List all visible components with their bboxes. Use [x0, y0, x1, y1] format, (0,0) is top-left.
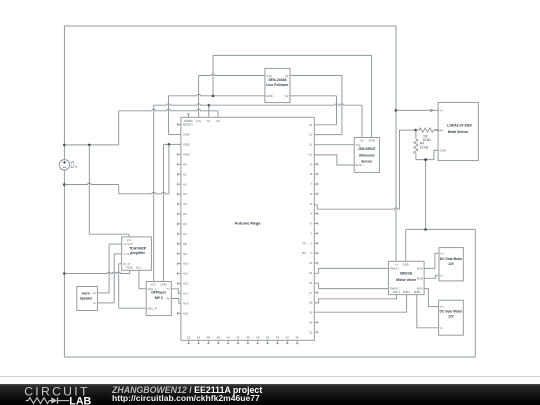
svg-text:TDA7492P: TDA7492P: [129, 246, 147, 250]
svg-text:13: 13: [309, 123, 313, 127]
wire amp Vcc branch horizontal: [89, 233, 129, 235]
svg-text:42: 42: [236, 336, 240, 340]
wire metal sensor GND link: [416, 150, 438, 159]
wire metal sensor GND down: [425, 160, 427, 230]
CircuitLab logo: [24, 384, 91, 405]
wire speaker- a: [97, 302, 114, 304]
wire IN_L / DAC_L vertical: [138, 270, 140, 289]
svg-text:Echo: Echo: [356, 163, 363, 167]
wire speaker- vertical: [113, 254, 115, 303]
resistor R4 10k: [414, 130, 429, 160]
wire 12V top rail: [64, 25, 396, 27]
wire 5V line: [154, 104, 362, 105]
svg-text:Ultrasonic: Ultrasonic: [359, 153, 375, 157]
DFPlayer MP3 module: [146, 282, 171, 316]
svg-text:DFPlayer: DFPlayer: [151, 291, 166, 295]
svg-text:S2: S2: [285, 94, 289, 98]
svg-text:48: 48: [207, 336, 211, 340]
svg-text:3.3v: 3.3v: [196, 119, 202, 123]
wire V1- down: [63, 170, 65, 357]
svg-text:38: 38: [256, 336, 260, 340]
wire DAC_L to DFPlayer: [139, 288, 146, 290]
wire into amp GND pin: [129, 270, 131, 273]
node 5V junction: [208, 104, 211, 107]
svg-text:A1: A1: [183, 172, 187, 176]
svg-text:A5: A5: [183, 212, 187, 216]
svg-text:A9: A9: [183, 252, 187, 256]
svg-text:12: 12: [309, 133, 313, 137]
wire M1A to motor1+: [424, 253, 439, 268]
wire S2 down: [336, 96, 338, 125]
svg-text:PWM 1: PWM 1: [390, 267, 400, 271]
node amp 12V branch: [88, 144, 91, 147]
svg-text:~9: ~9: [309, 162, 313, 166]
svg-text:3.3V: 3.3V: [266, 74, 272, 78]
svg-text:DC Gear Motor: DC Gear Motor: [440, 309, 463, 313]
wire: [118, 111, 120, 145]
wire DAC_R vertical: [118, 264, 120, 308]
wire pin13: [314, 124, 336, 126]
svg-text:LJ30A3-15-Z/BX: LJ30A3-15-Z/BX: [447, 124, 473, 128]
svg-text:GND: GND: [368, 139, 374, 143]
wire V1+ up: [63, 26, 65, 160]
wire 5v up: [208, 105, 210, 117]
svg-text:S1: S1: [285, 74, 289, 78]
wire pin5 jog: [314, 205, 317, 209]
wire Echo to pin10: [314, 155, 354, 165]
svg-text:34: 34: [276, 336, 280, 340]
wire S2: [290, 95, 337, 97]
wire 3.3v to line follower: [199, 74, 265, 75]
svg-text:GND: GND: [183, 143, 191, 147]
wire pin19 to DIR2: [314, 295, 406, 313]
node GND tap 1: [63, 183, 66, 186]
wire GND1 line: [169, 134, 181, 136]
wire 12V to Vin run: [64, 144, 118, 146]
svg-text:~5: ~5: [309, 202, 313, 206]
wire: [118, 185, 120, 194]
svg-text:~8: ~8: [309, 172, 313, 176]
svg-text:IN_L: IN_L: [136, 266, 142, 270]
wire GND to JSN: [371, 55, 373, 137]
wire Trig to pin11: [314, 144, 354, 146]
svg-text:A2: A2: [183, 182, 187, 186]
svg-text:RESET: RESET: [183, 123, 193, 127]
wire speaker+ vertical: [108, 244, 110, 293]
svg-text:A0: A0: [183, 162, 187, 166]
svg-text:DAC_L: DAC_L: [148, 287, 157, 291]
svg-text:Motor driver: Motor driver: [396, 278, 416, 282]
svg-text:RX ← 0: RX ← 0: [302, 251, 313, 255]
wire S1 down: [341, 76, 343, 135]
motor M2 DC gear motor: [439, 300, 464, 335]
svg-text:MP 3: MP 3: [155, 296, 163, 300]
svg-text:30: 30: [295, 336, 299, 340]
svg-text:http://circuitlab.com/ckhfk2m4: http://circuitlab.com/ckhfk2m46ue77: [112, 393, 260, 403]
svg-text:A13: A13: [183, 292, 189, 296]
wire GND to amp: [64, 272, 129, 273]
svg-text:19: 19: [309, 311, 313, 315]
svg-text:GND: GND: [183, 152, 191, 156]
svg-text:-In: -In: [93, 301, 97, 305]
wire IN_R: [119, 263, 122, 265]
wire divider to Arduino pin 5: [400, 130, 416, 209]
svg-text:Amplifier: Amplifier: [130, 251, 145, 255]
ultrasonic sensor JSN-SR04T: [354, 138, 379, 173]
svg-text:DC Gear Motor: DC Gear Motor: [440, 257, 463, 261]
wire GND to DFPlayer: [163, 144, 165, 281]
svg-text:LAB: LAB: [69, 395, 91, 405]
svg-text:In-: In-: [440, 273, 443, 277]
svg-text:44: 44: [226, 336, 230, 340]
wire into Vin pin: [217, 111, 219, 118]
wire GND bottom rail: [64, 356, 475, 358]
wire GND loop top: [406, 228, 476, 230]
svg-text:GND: GND: [183, 133, 191, 137]
svg-text:VCC: VCC: [150, 283, 156, 287]
wire pin12: [314, 134, 342, 136]
svg-text:21: 21: [309, 330, 313, 334]
svg-text:15: 15: [309, 271, 313, 275]
svg-text:A11: A11: [183, 272, 188, 276]
wire GND right riser: [474, 229, 476, 357]
node GND rail tap: [212, 95, 215, 98]
svg-text:+L OUT: +L OUT: [123, 242, 133, 246]
svg-text:Sensor: Sensor: [361, 160, 373, 164]
svg-text:A8: A8: [183, 242, 187, 246]
svg-text:12V: 12V: [448, 314, 455, 318]
wire GND2 line: [164, 143, 181, 145]
separator line: [0, 376, 540, 378]
svg-text:DAC_R: DAC_R: [148, 306, 157, 310]
node GND tap 2: [63, 272, 66, 275]
svg-text:DIR 1: DIR 1: [393, 290, 401, 294]
svg-text:SEN-24048: SEN-24048: [268, 78, 286, 82]
svg-text:~6: ~6: [309, 192, 313, 196]
resistor R3 10k: [416, 128, 439, 142]
svg-text:TX → 1: TX → 1: [302, 241, 313, 245]
svg-text:32: 32: [286, 336, 290, 340]
svg-text:Speaker: Speaker: [80, 296, 94, 300]
svg-text:40: 40: [246, 336, 250, 340]
wire GND run: [119, 192, 169, 193]
svg-text:16: 16: [309, 281, 313, 285]
svg-text:12V: 12V: [448, 262, 455, 266]
svg-text:Arduino Mega: Arduino Mega: [235, 220, 262, 225]
svg-text:52: 52: [187, 336, 191, 340]
svg-text:MDD3A: MDD3A: [400, 272, 413, 276]
node 12V tap: [63, 144, 66, 147]
junction: [424, 228, 427, 231]
svg-text:5v: 5v: [360, 139, 364, 143]
node 12V junction at metal sensor: [395, 109, 398, 112]
svg-text:M1A: M1A: [417, 267, 423, 271]
svg-text:Trig: Trig: [356, 143, 361, 147]
svg-text:Line Follower: Line Follower: [266, 83, 289, 87]
svg-text:In+: In+: [440, 252, 444, 256]
svg-text:18: 18: [309, 301, 313, 305]
wire 3.3v up: [198, 76, 200, 118]
svg-text:GND: GND: [126, 266, 132, 270]
svg-text:46: 46: [217, 336, 221, 340]
svg-text:+In: +In: [92, 291, 96, 295]
wire GND stub down: [168, 144, 170, 193]
wire GND rail left vertical: [212, 55, 214, 95]
svg-text:~10: ~10: [307, 152, 312, 156]
svg-text:GND: GND: [266, 94, 272, 98]
svg-text:17: 17: [309, 291, 313, 295]
wire Rx to A14: [171, 299, 181, 304]
wire GND rail top: [213, 54, 372, 56]
wire S1: [290, 75, 342, 77]
wire GND1 up: [168, 96, 170, 135]
svg-text:~3: ~3: [309, 222, 313, 226]
svg-text:In-: In-: [440, 326, 443, 330]
wire pin16 to PWM2: [314, 283, 388, 288]
metal sensor LJ30A3: [435, 102, 479, 160]
motor M1 DC gear motor: [439, 248, 463, 281]
svg-text:A14: A14: [183, 301, 189, 305]
voltage source V1: [59, 160, 78, 170]
svg-text:GND: GND: [440, 148, 446, 152]
svg-text:Metal Sensor: Metal Sensor: [448, 130, 469, 134]
wire pin15 to PWM1: [314, 268, 388, 273]
svg-text:10 kΩ: 10 kΩ: [420, 145, 429, 149]
motor driver MDD3A: [388, 261, 424, 294]
wire 12V down right: [395, 26, 397, 261]
wire pin5 horizontal: [317, 208, 399, 209]
svg-text:A12: A12: [183, 282, 189, 286]
svg-text:A6: A6: [183, 222, 187, 226]
wire +L OUT: [109, 243, 122, 245]
svg-text:20: 20: [309, 320, 313, 324]
speaker SPK1 Horn Speaker: [77, 287, 98, 311]
svg-text:GND: GND: [160, 283, 166, 287]
svg-text:5v: 5v: [207, 119, 211, 123]
wire -L OUT: [114, 253, 122, 255]
svg-text:A7: A7: [183, 232, 187, 236]
wire into amp Vcc pin: [128, 234, 130, 237]
wire MDD3A GND up: [405, 229, 407, 261]
svg-text:A4: A4: [183, 202, 187, 206]
junction: [168, 143, 171, 146]
svg-text:36: 36: [266, 336, 270, 340]
wire GND to line follower: [169, 94, 265, 95]
wire amp Vcc branch vertical: [88, 145, 90, 234]
wire M2B to motor2-: [417, 295, 439, 328]
svg-text:DIR 2: DIR 2: [403, 290, 411, 294]
wire metal sensor V+: [396, 109, 434, 111]
wire M1B to motor1-: [424, 275, 439, 278]
svg-text:Vin: Vin: [216, 119, 221, 123]
wire 5V to DFPlayer: [153, 105, 155, 281]
node divider junction: [414, 129, 417, 132]
svg-text:A3: A3: [183, 192, 187, 196]
op-amp U1 Arduino Mega: [178, 114, 318, 344]
wire Vin line: [119, 109, 218, 110]
svg-text:Horn: Horn: [82, 292, 90, 296]
svg-text:A10: A10: [183, 262, 189, 266]
svg-text:GND: GND: [403, 262, 409, 266]
svg-text:M1B: M1B: [417, 276, 423, 280]
wire GND tap to Arduino: [64, 183, 118, 184]
svg-text:V+: V+: [440, 109, 444, 113]
line follower sensor SEN-24048: [265, 68, 290, 102]
svg-text:14: 14: [309, 261, 313, 265]
svg-text:11: 11: [309, 143, 312, 147]
svg-text:A15: A15: [183, 311, 189, 315]
svg-text:JSN-SR04T: JSN-SR04T: [358, 147, 376, 151]
svg-text:In+: In+: [440, 305, 444, 309]
svg-text:Rx: Rx: [167, 297, 171, 301]
wire 5V to JSN: [361, 105, 363, 137]
svg-text:Signal: Signal: [435, 128, 443, 132]
svg-text:50: 50: [197, 336, 201, 340]
wire speaker+ a: [97, 292, 109, 294]
svg-text:-L OUT: -L OUT: [123, 252, 133, 256]
wire M2A to motor2+: [424, 289, 439, 307]
wire pin18 to DIR1: [314, 295, 396, 303]
svg-text:M2B: M2B: [414, 290, 420, 294]
wire DAC_R to DFPlayer: [119, 307, 147, 309]
amplifier U2 TDA7492P: [122, 237, 152, 270]
wire Tx to A13: [171, 289, 181, 294]
junction: [424, 158, 427, 161]
svg-text:12 V: 12 V: [71, 165, 79, 169]
